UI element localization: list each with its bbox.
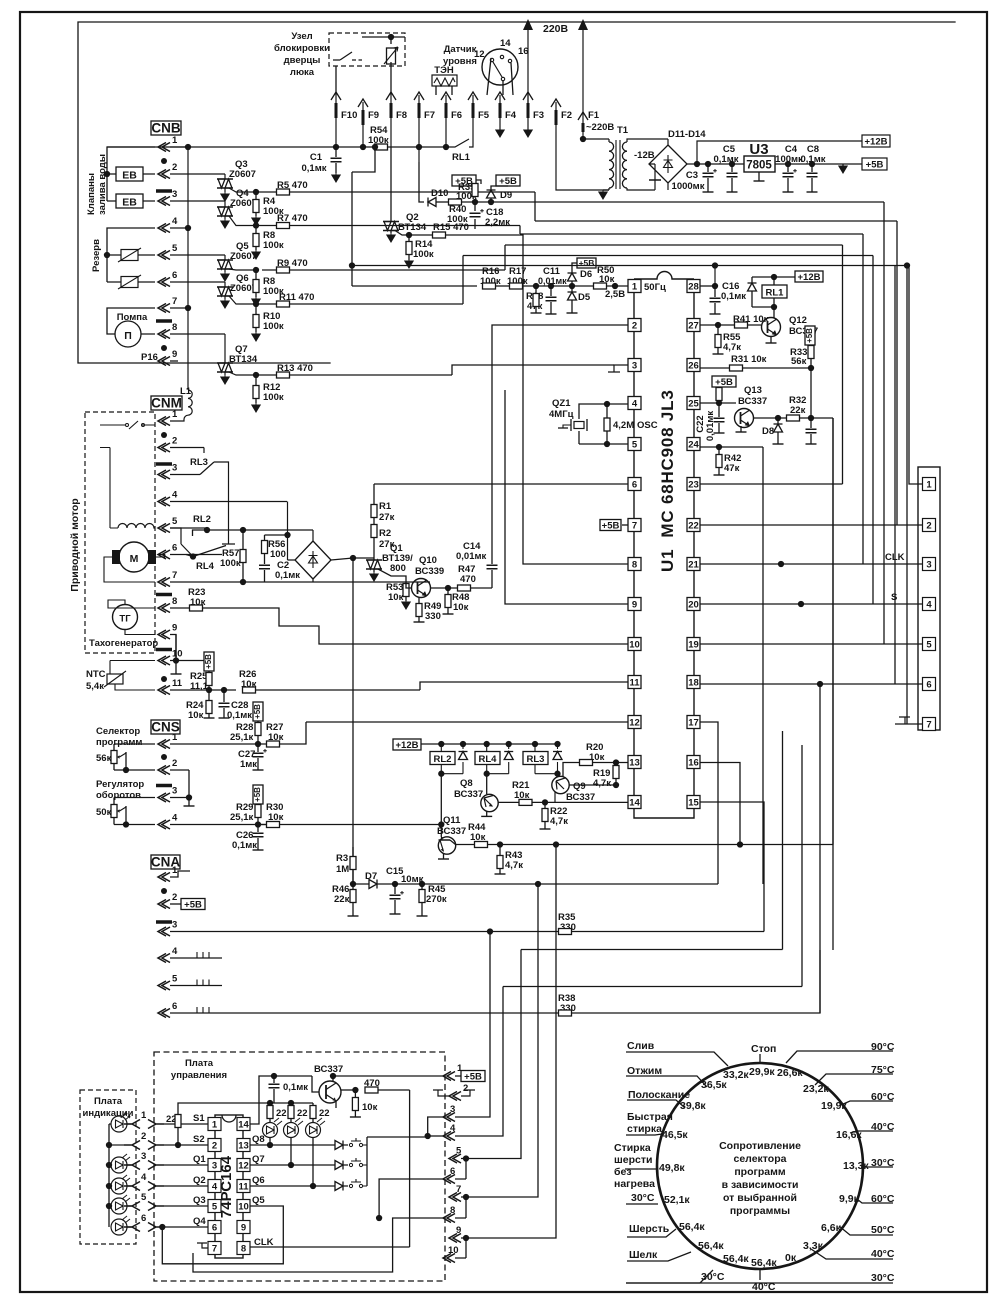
svg-text:нагрева: нагрева — [614, 1178, 655, 1190]
CNM pin 4 — [158, 497, 170, 506]
door lock unit label — [274, 31, 330, 78]
CNA pin 6 — [158, 1009, 170, 1018]
svg-text:Q9: Q9 — [573, 781, 586, 792]
CNA pin 5 — [158, 981, 170, 990]
fuse body thick segments — [336, 103, 583, 132]
svg-text:+12В: +12В — [798, 272, 821, 283]
svg-text:8: 8 — [172, 596, 177, 607]
fuse up-arrowheads — [331, 92, 588, 120]
svg-text:3: 3 — [141, 1151, 146, 1162]
svg-text:+5В: +5В — [204, 654, 213, 669]
svg-text:2: 2 — [172, 162, 177, 173]
svg-text:+12В: +12В — [396, 740, 419, 751]
svg-text:8: 8 — [172, 322, 177, 333]
svg-text:+12В: +12В — [865, 137, 888, 148]
svg-text:1: 1 — [212, 1120, 218, 1131]
svg-text:от выбранной: от выбранной — [723, 1192, 797, 1204]
svg-text:0,01мк: 0,01мк — [456, 551, 487, 562]
svg-text:23: 23 — [688, 480, 699, 491]
svg-text:Шелк: Шелк — [629, 1249, 658, 1261]
svg-text:16: 16 — [518, 46, 529, 57]
svg-text:3: 3 — [212, 1161, 217, 1172]
svg-text:270к: 270к — [426, 894, 447, 905]
svg-text:26,6к: 26,6к — [777, 1067, 803, 1079]
svg-text:+5В: +5В — [253, 704, 262, 719]
svg-text:50Гц: 50Гц — [644, 282, 666, 293]
CNB pin 6 — [158, 278, 170, 287]
svg-text:RL4: RL4 — [196, 561, 215, 572]
pin15 riser — [700, 802, 764, 932]
svg-text:2: 2 — [632, 321, 637, 332]
svg-text:9: 9 — [172, 349, 177, 360]
riser to S — [463, 256, 873, 605]
svg-text:Сопротивление: Сопротивление — [719, 1140, 801, 1152]
svg-text:9: 9 — [632, 600, 637, 611]
svg-text:1: 1 — [926, 480, 932, 491]
svg-text:100: 100 — [270, 549, 286, 560]
pin 9 — [449, 1234, 461, 1243]
svg-text:C3: C3 — [686, 170, 698, 181]
CNA label — [151, 855, 180, 869]
svg-text:Тахогенератор: Тахогенератор — [89, 638, 158, 649]
pin 7 — [449, 1193, 461, 1202]
diode + button row 3 — [335, 1182, 343, 1191]
svg-text:~220В: ~220В — [586, 122, 614, 133]
wire into R16 — [352, 285, 477, 287]
svg-text:1: 1 — [632, 282, 638, 293]
svg-text:13: 13 — [629, 758, 640, 769]
svg-text:C1: C1 — [310, 152, 323, 163]
svg-text:RL3: RL3 — [527, 754, 545, 765]
svg-text:ВС337: ВС337 — [566, 792, 595, 803]
left pin labels — [193, 1113, 206, 1227]
op IC U1 body columns — [634, 279, 694, 809]
pin8 wire — [446, 235, 629, 564]
svg-text:D8: D8 — [762, 426, 774, 437]
svg-text:Селектор: Селектор — [96, 726, 140, 737]
svg-text:9,9к: 9,9к — [839, 1193, 860, 1205]
svg-text:Q4: Q4 — [193, 1216, 206, 1227]
svg-text:7: 7 — [172, 296, 177, 307]
U1 left pin boxes 1-14 — [628, 280, 641, 293]
pin 8 — [443, 1214, 455, 1223]
svg-text:0,1мк: 0,1мк — [283, 1082, 308, 1093]
CLK wire from IC — [250, 1243, 410, 1249]
svg-text:2: 2 — [926, 521, 931, 532]
F7 wire down to D10 — [419, 162, 424, 202]
CNB vertical bus — [187, 147, 189, 390]
RL3 to Q9 collector — [557, 774, 559, 777]
RL1 contact — [446, 139, 473, 147]
svg-text:22: 22 — [319, 1108, 330, 1119]
pin 6 — [443, 1175, 455, 1184]
cap at R32/R33 node — [809, 418, 811, 444]
svg-text:стирка: стирка — [627, 1123, 662, 1135]
RL4 to Q8 collector — [486, 774, 488, 795]
svg-text:0,1мк: 0,1мк — [714, 154, 739, 165]
svg-text:программ: программ — [96, 737, 142, 748]
svg-text:6: 6 — [450, 1166, 455, 1177]
svg-text:10: 10 — [629, 640, 640, 651]
svg-text:24: 24 — [688, 440, 699, 451]
svg-text:+5В: +5В — [184, 900, 202, 911]
svg-text:7: 7 — [926, 720, 931, 731]
svg-text:-12В: -12В — [634, 150, 655, 161]
riser to CLK — [520, 234, 863, 564]
resistance values around rim — [659, 1066, 869, 1269]
svg-text:25: 25 — [688, 399, 699, 410]
svg-text:1: 1 — [172, 409, 178, 420]
svg-text:220В: 220В — [543, 23, 569, 35]
svg-text:100мк: 100мк — [775, 154, 803, 165]
svg-text:5: 5 — [172, 516, 178, 527]
pin12 wire — [306, 721, 628, 723]
RL2 to Q11 base riser — [440, 774, 442, 837]
svg-text:RL1: RL1 — [766, 288, 785, 299]
Q5 pin10 route — [162, 1206, 283, 1264]
svg-text:без: без — [614, 1166, 632, 1178]
svg-text:3: 3 — [172, 786, 177, 797]
svg-text:56,4к: 56,4к — [751, 1257, 777, 1269]
svg-text:D9: D9 — [500, 190, 512, 201]
spokes right — [786, 1051, 893, 1063]
LED vertical bus — [108, 1124, 110, 1227]
svg-text:Z0607: Z0607 — [229, 169, 256, 180]
relay RL2 coil — [430, 752, 455, 765]
svg-text:1: 1 — [172, 865, 178, 876]
pin1 wire — [615, 285, 629, 287]
svg-text:5: 5 — [926, 640, 932, 651]
CNS pin 3 — [158, 793, 170, 802]
LED outputs to Q8 Q7 Q6 rows — [250, 1138, 330, 1146]
CNB pin 3 — [158, 197, 170, 206]
CNM pin 11 — [158, 686, 170, 695]
svg-text:5: 5 — [632, 440, 638, 451]
svg-text:1мк: 1мк — [240, 759, 257, 770]
svg-text:D5: D5 — [578, 292, 591, 303]
riser to conn2 — [535, 221, 897, 525]
pin5 wire — [579, 443, 628, 445]
svg-text:10: 10 — [238, 1202, 249, 1213]
svg-text:ЕВ: ЕВ — [122, 170, 137, 182]
+5V box for D9 — [496, 175, 520, 186]
svg-text:23,2к: 23,2к — [803, 1083, 829, 1095]
bar — [156, 462, 172, 466]
svg-text:RL2: RL2 — [193, 514, 211, 525]
ground on 5V rail — [842, 164, 844, 166]
CNA pin 4 — [158, 954, 170, 963]
CNM pin 10 — [158, 656, 170, 665]
wires from triac ladder going right/down — [534, 192, 536, 221]
svg-text:F7: F7 — [424, 110, 435, 121]
dot 1-2 — [161, 432, 167, 438]
wire pin28 up right — [730, 267, 907, 286]
svg-text:11: 11 — [238, 1182, 249, 1193]
svg-text:4: 4 — [632, 399, 638, 410]
CNB pin 1 — [158, 143, 170, 152]
svg-text:Отжим: Отжим — [627, 1065, 662, 1077]
svg-text:14: 14 — [238, 1120, 249, 1131]
svg-text:12: 12 — [474, 49, 485, 60]
top bus wire — [107, 146, 446, 148]
svg-text:6: 6 — [212, 1223, 217, 1234]
pin11 wire — [420, 682, 628, 690]
svg-text:100к: 100к — [263, 392, 284, 403]
svg-text:F5: F5 — [478, 110, 490, 121]
pin 3 — [443, 1113, 455, 1122]
reserve varistor 1 — [121, 250, 138, 261]
svg-text:26: 26 — [688, 361, 699, 372]
svg-text:F6: F6 — [451, 110, 462, 121]
riser to conn6 — [352, 266, 909, 685]
svg-text:RL3: RL3 — [190, 457, 208, 468]
svg-text:0,1мк: 0,1мк — [801, 154, 826, 165]
U1 right pin boxes 28-15 — [687, 280, 700, 293]
horizontal y=986.5 — [503, 745, 802, 987]
program position labels left — [614, 1040, 776, 1293]
dot — [161, 754, 167, 760]
CNB pin 4 — [158, 224, 170, 233]
CNM pin 2 — [158, 443, 170, 452]
svg-text:программ: программ — [734, 1166, 786, 1178]
pin 2 nc — [449, 1092, 461, 1101]
svg-text:25,1к: 25,1к — [230, 812, 253, 823]
reserve varistor 2 — [121, 277, 138, 288]
svg-text:D11-D14: D11-D14 — [668, 129, 706, 140]
svg-text:Q7: Q7 — [252, 1154, 265, 1165]
svg-text:4,7к: 4,7к — [550, 816, 568, 827]
svg-text:4: 4 — [172, 216, 178, 227]
svg-text:47к: 47к — [724, 463, 740, 474]
svg-text:Q2: Q2 — [193, 1175, 206, 1186]
transformer T1 — [608, 139, 610, 190]
pin9 wire — [452, 375, 628, 604]
pin 10 — [443, 1254, 455, 1263]
wire F1 to transformer — [556, 132, 609, 190]
svg-text:4,7к: 4,7к — [505, 860, 523, 871]
pin boxes — [923, 478, 936, 731]
svg-text:10к: 10к — [362, 1102, 378, 1113]
svg-text:блокировки: блокировки — [274, 43, 330, 54]
svg-text:1: 1 — [172, 732, 178, 743]
svg-text:U1 МС 68НС908 JL3: U1 МС 68НС908 JL3 — [658, 389, 677, 572]
fuse wires F10-F1 — [336, 95, 583, 162]
svg-text:Быстрая: Быстрая — [627, 1111, 673, 1123]
svg-text:100к: 100к — [220, 558, 241, 569]
CNM pin 5 — [158, 524, 170, 533]
R44 wire to pin16 riser — [700, 763, 740, 845]
svg-text:9: 9 — [456, 1225, 461, 1236]
+5V box above pin25 pullup — [712, 376, 736, 387]
svg-text:39,8к: 39,8к — [680, 1100, 706, 1112]
svg-text:6: 6 — [632, 480, 637, 491]
svg-text:ВС337: ВС337 — [314, 1064, 343, 1075]
R38 riser up — [819, 684, 821, 1013]
pin4 wire into bridge — [286, 502, 288, 529]
svg-text:22: 22 — [276, 1108, 287, 1119]
tacho generator — [113, 605, 138, 630]
svg-text:14: 14 — [629, 798, 640, 809]
left pin boxes — [208, 1118, 221, 1255]
svg-text:13: 13 — [238, 1141, 249, 1152]
svg-text:F9: F9 — [368, 110, 379, 121]
svg-text:19: 19 — [688, 640, 699, 651]
svg-text:6: 6 — [141, 1213, 146, 1224]
LED 3 — [111, 1175, 130, 1194]
relay RL4 coil — [475, 752, 500, 765]
svg-text:Q3: Q3 — [193, 1195, 206, 1206]
bar — [156, 593, 172, 597]
pin28 net C16 — [700, 285, 750, 287]
svg-text:ЕВ: ЕВ — [122, 197, 137, 209]
svg-text:+5В: +5В — [464, 1072, 482, 1083]
svg-text:46,5к: 46,5к — [662, 1129, 688, 1141]
svg-text:ТЭН: ТЭН — [434, 65, 454, 76]
LED D under 22 no2 — [284, 1118, 304, 1138]
spokes left — [626, 1052, 728, 1066]
svg-text:11: 11 — [629, 678, 640, 689]
svg-text:33,2к: 33,2к — [723, 1069, 749, 1081]
CLK wire pin21 — [700, 563, 923, 565]
base wire to cap node — [312, 1076, 319, 1092]
relay diode — [751, 277, 753, 307]
LED D under 22 no3 — [306, 1118, 326, 1138]
R44 wire continuation — [740, 835, 833, 837]
svg-text:Датчик: Датчик — [444, 44, 477, 55]
LED 1 — [111, 1113, 130, 1132]
svg-text:28: 28 — [688, 282, 699, 293]
svg-text:2: 2 — [463, 1083, 468, 1094]
svg-text:56,4к: 56,4к — [698, 1240, 724, 1252]
pin7 gnd — [197, 1243, 208, 1248]
svg-text:Q1: Q1 — [193, 1154, 206, 1165]
right pin boxes — [237, 1118, 250, 1255]
svg-text:ВС337: ВС337 — [454, 789, 483, 800]
pin2-3 common to gnd — [188, 770, 190, 806]
svg-text:Q8: Q8 — [460, 778, 473, 789]
wire to right bundle — [832, 418, 834, 950]
svg-text:Q8: Q8 — [252, 1134, 265, 1145]
svg-text:5: 5 — [212, 1202, 218, 1213]
mid horizontal group — [496, 835, 498, 837]
R32 node riser down — [832, 418, 834, 845]
svg-text:Плата: Плата — [185, 1058, 214, 1069]
pin8 left route — [193, 1218, 443, 1272]
stop tick — [759, 1054, 761, 1063]
wire from R54 node down — [352, 147, 375, 286]
svg-text:10: 10 — [448, 1245, 459, 1256]
svg-text:F3: F3 — [533, 110, 544, 121]
svg-text:5: 5 — [141, 1192, 147, 1203]
svg-text:2,5В: 2,5В — [605, 289, 625, 300]
wire pin18 / conn6 — [700, 683, 923, 685]
CNB pin 7 — [158, 304, 170, 313]
svg-text:3: 3 — [632, 361, 637, 372]
svg-text:ТГ: ТГ — [119, 614, 131, 625]
conn pin7 wire with gnd step — [895, 717, 923, 724]
CNS pin 1 — [158, 740, 170, 749]
svg-text:56,4к: 56,4к — [679, 1221, 705, 1233]
svg-text:18: 18 — [688, 678, 699, 689]
svg-text:Приводной мотор: Приводной мотор — [69, 498, 81, 591]
horizontals to risers — [540, 626, 740, 868]
bottom tick 40C — [759, 1269, 761, 1280]
neutral bar — [156, 189, 172, 193]
ground at bridge left — [649, 179, 661, 181]
collector up to +5V wire — [332, 1076, 334, 1081]
svg-text:0,1мк: 0,1мк — [302, 163, 327, 174]
relay RL3 coil — [523, 752, 548, 765]
svg-text:R2: R2 — [379, 528, 391, 539]
svg-text:0,1мк: 0,1мк — [227, 710, 252, 721]
svg-text:Стоп: Стоп — [751, 1043, 776, 1055]
svg-text:R1: R1 — [379, 501, 392, 512]
svg-text:1: 1 — [141, 1110, 147, 1121]
svg-text:RL2: RL2 — [434, 754, 452, 765]
svg-text:RL1: RL1 — [452, 152, 471, 163]
svg-text:+5В: +5В — [805, 328, 814, 343]
RL1 relay coil — [762, 285, 787, 298]
svg-text:6: 6 — [172, 1001, 177, 1012]
svg-text:+5В: +5В — [253, 787, 262, 802]
svg-text:ВС339: ВС339 — [415, 566, 444, 577]
pin24 net R42 — [700, 446, 763, 448]
TEN heater resistor — [432, 75, 457, 86]
svg-text:4,2М: 4,2М — [613, 420, 634, 431]
CNS pin 4 — [158, 820, 170, 829]
wire conn pin2 / pin22 — [700, 524, 923, 526]
svg-text:R31 10к: R31 10к — [731, 354, 767, 365]
svg-text:управления: управления — [171, 1070, 227, 1081]
svg-text:4: 4 — [212, 1182, 218, 1193]
svg-text:7: 7 — [632, 521, 637, 532]
valves section label — [86, 154, 108, 215]
svg-text:15: 15 — [688, 798, 699, 809]
control board dashed box — [154, 1052, 445, 1281]
CNS label — [151, 720, 180, 734]
svg-text:4: 4 — [926, 600, 932, 611]
svg-text:800: 800 — [390, 563, 406, 574]
bar — [156, 648, 172, 652]
svg-text:10к: 10к — [514, 790, 530, 801]
svg-text:4: 4 — [450, 1123, 456, 1134]
F4 F3 down arrows — [500, 130, 528, 132]
+5V box — [862, 158, 887, 170]
+12V box — [795, 271, 823, 282]
74PC164 body — [215, 1115, 243, 1258]
pins5-6 left join — [379, 1179, 443, 1218]
zero-cross riser — [883, 202, 885, 644]
svg-text:0,1мк: 0,1мк — [275, 570, 300, 581]
switched wire pin5 row — [193, 530, 314, 536]
right node wire — [341, 1089, 355, 1091]
CNM pin 8 — [158, 604, 170, 613]
svg-text:Q11: Q11 — [443, 815, 461, 826]
door lock actuator — [387, 48, 396, 64]
svg-text:RL4: RL4 — [479, 754, 498, 765]
CNS pin 2 — [158, 766, 170, 775]
svg-text:12: 12 — [629, 718, 640, 729]
svg-text:3: 3 — [926, 560, 931, 571]
right connector body — [918, 467, 940, 730]
machine boundary box — [78, 22, 955, 363]
motor windings — [118, 524, 155, 529]
bar — [156, 784, 172, 788]
zero-cross wire to right — [491, 201, 884, 203]
svg-text:1000мк: 1000мк — [672, 181, 705, 192]
CNA pin 3 long wire — [158, 927, 170, 936]
neutral bar 2 — [156, 319, 172, 323]
